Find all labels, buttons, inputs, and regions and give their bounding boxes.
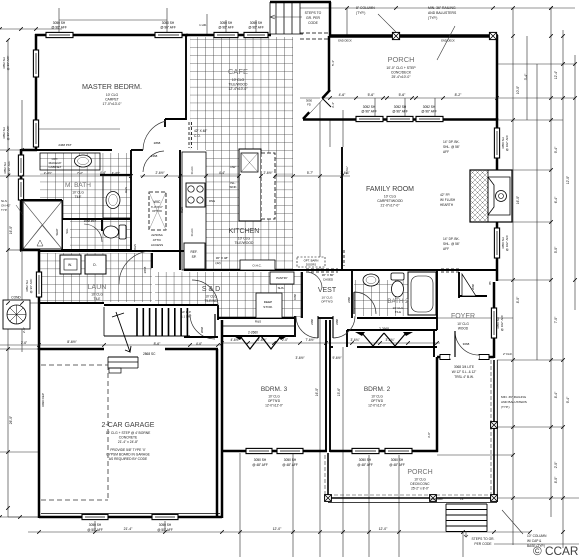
svg-text:10' CLG: 10' CLG xyxy=(205,295,217,299)
wall: laundry/hall left xyxy=(38,249,41,350)
svg-text:17'-0"x13'-0": 17'-0"x13'-0" xyxy=(103,102,123,106)
wall: stairs top / S&D bottom xyxy=(104,304,218,306)
svg-text:HEARTH: HEARTH xyxy=(440,203,454,207)
svg-text:SHL. @ 56": SHL. @ 56" xyxy=(443,242,460,246)
svg-text:& 1 5/8": & 1 5/8" xyxy=(181,315,192,319)
svg-text:10' CLG: 10' CLG xyxy=(384,195,397,199)
svg-text:OPT'N'D: OPT'N'D xyxy=(152,209,162,213)
svg-text:3050 SH: 3050 SH xyxy=(359,458,372,462)
svg-text:TRSL 4" B.W.: TRSL 4" B.W. xyxy=(454,375,474,379)
svg-text:B5: B5 xyxy=(488,281,492,285)
wall: master bath left xyxy=(20,149,23,251)
svg-text:GR. PER: GR. PER xyxy=(306,16,320,20)
svg-text:PANTRY: PANTRY xyxy=(276,276,288,280)
svg-text:D.: D. xyxy=(93,263,96,267)
WC toilet xyxy=(104,225,127,239)
svg-text:DEEP: DEEP xyxy=(264,300,272,304)
pantry + shelves S&D xyxy=(270,272,294,284)
ticks top left 29 xyxy=(0,27,38,31)
stair landing edge xyxy=(104,335,190,337)
window garage bottom 2 xyxy=(152,514,178,519)
svg-text:9'-6½": 9'-6½" xyxy=(332,356,341,360)
svg-text:8'-6½": 8'-6½" xyxy=(67,340,77,344)
wall: porch top (deck edge) xyxy=(330,34,498,37)
svg-text:FD: FD xyxy=(307,103,311,107)
svg-text:R&S: R&S xyxy=(124,187,128,193)
rear steps treads xyxy=(275,3,277,34)
wall: foyer west lower xyxy=(433,330,435,357)
svg-text:3'-6¾": 3'-6¾" xyxy=(350,338,359,342)
svg-text:4'-6½": 4'-6½" xyxy=(230,338,239,342)
wall: vest west xyxy=(301,272,303,318)
wall: vanity return xyxy=(100,174,131,176)
svg-text:AFF: AFF xyxy=(443,247,449,251)
svg-text:(TYP.): (TYP.) xyxy=(501,405,510,409)
shower with X xyxy=(23,201,62,249)
wall: master bedroom left xyxy=(35,34,38,151)
island sink xyxy=(241,153,258,172)
svg-text:3050 SH: 3050 SH xyxy=(254,458,267,462)
wall: bdrm3 alcove side xyxy=(294,316,296,337)
washer xyxy=(60,255,81,274)
ticks top 8 xyxy=(345,6,553,10)
svg-text:12'-0": 12'-0" xyxy=(273,527,282,531)
wall: master/cafe divider xyxy=(185,35,187,120)
wall: foyer front xyxy=(437,356,494,359)
svg-text:3050 SH: 3050 SH xyxy=(250,21,263,25)
svg-text:2468: 2468 xyxy=(310,319,314,325)
svg-text:@ 48" AFF: @ 48" AFF xyxy=(252,463,268,467)
svg-text:KITCHEN: KITCHEN xyxy=(229,228,260,235)
svg-text:W/ FLUSH: W/ FLUSH xyxy=(440,198,456,202)
svg-text:BDRM. 3: BDRM. 3 xyxy=(261,386,288,393)
svg-text:3052 SH: 3052 SH xyxy=(423,105,436,109)
svg-text:5'-7": 5'-7" xyxy=(307,171,313,175)
svg-text:2468: 2468 xyxy=(151,154,158,158)
svg-text:@ 48" AFF: @ 48" AFF xyxy=(357,463,373,467)
wall: garage top east xyxy=(165,348,218,351)
window 3050 SH bdrm2 2 xyxy=(385,448,412,453)
wall: porch/family window wall xyxy=(303,118,497,121)
window 3052 SH laundry xyxy=(36,272,41,297)
svg-text:DOORS: DOORS xyxy=(306,263,316,267)
svg-text:TILE: TILE xyxy=(75,195,82,199)
svg-text:MIN. 36" RAILING: MIN. 36" RAILING xyxy=(428,6,456,10)
svg-text:2868 SC: 2868 SC xyxy=(143,352,156,356)
tile floor: bath 2 xyxy=(354,280,410,316)
svg-text:2468 PKT: 2468 PKT xyxy=(58,143,72,147)
bath2 toilet xyxy=(391,273,404,297)
garage bottom inner line xyxy=(41,513,220,515)
wall: main cross wall y270 xyxy=(184,269,497,271)
svg-text:BDRM. 2: BDRM. 2 xyxy=(364,386,391,393)
svg-text:3'-5¾": 3'-5¾" xyxy=(385,338,394,342)
svg-text:@ 48" AFF: @ 48" AFF xyxy=(389,463,405,467)
svg-text:3050 SH: 3050 SH xyxy=(162,21,175,25)
tile floor: master bath xyxy=(40,153,131,219)
wall: rear steps right edge xyxy=(329,2,332,37)
dashed landing edge xyxy=(300,32,330,34)
svg-text:2-CAR GARAGE: 2-CAR GARAGE xyxy=(102,422,155,429)
svg-text:10' CLG: 10' CLG xyxy=(232,78,245,82)
window 3052 SH porch wall 2 xyxy=(387,116,413,121)
svg-text:12'-0"x12'-0": 12'-0"x12'-0" xyxy=(368,404,386,408)
svg-text:REF.: REF. xyxy=(191,250,198,254)
svg-text:O.H.C.: O.H.C. xyxy=(190,228,194,237)
wall: bdrm2 top west stub xyxy=(330,346,333,348)
fridge space xyxy=(184,243,205,269)
svg-text:4'-4": 4'-4" xyxy=(100,171,106,175)
svg-text:10' CLG: 10' CLG xyxy=(91,293,103,297)
svg-text:14" DP. BK.: 14" DP. BK. xyxy=(443,237,460,241)
window 3050 SH master top 2 xyxy=(155,32,182,37)
svg-text:OPT'N'D: OPT'N'D xyxy=(321,300,333,304)
svg-text:STEPS TO GR.: STEPS TO GR. xyxy=(472,537,495,541)
svg-text:SEAT: SEAT xyxy=(55,228,59,235)
fireplace xyxy=(470,170,512,222)
cased opening 42x48 C.O. xyxy=(188,122,190,148)
ticks right col 513 xyxy=(511,34,515,500)
svg-text:3050 SH: 3050 SH xyxy=(53,21,66,25)
ticks right col 575 xyxy=(573,62,577,282)
wall: stub between alcove doors xyxy=(318,317,333,319)
svg-text:5'-6": 5'-6" xyxy=(368,93,376,97)
svg-text:TILE/WD: TILE/WD xyxy=(205,299,219,303)
stair well left xyxy=(103,307,105,336)
svg-text:CARPET/WOOD: CARPET/WOOD xyxy=(377,199,403,203)
svg-text:@ 50" AFF: @ 50" AFF xyxy=(87,528,103,532)
bath dim chain y176 xyxy=(21,175,131,177)
svg-text:(TYP.): (TYP.) xyxy=(428,16,437,20)
svg-text:STOR.: STOR. xyxy=(263,305,273,309)
svg-text:W/ CAP &: W/ CAP & xyxy=(527,539,542,543)
wall: bdrm3/bdrm2 divider xyxy=(325,320,327,452)
wall: bath2 west xyxy=(351,270,353,318)
svg-text:2'-6½": 2'-6½" xyxy=(257,338,266,342)
svg-text:14" DP. BK.: 14" DP. BK. xyxy=(443,140,460,144)
garage interior dashed line xyxy=(107,365,109,500)
svg-text:2'-6½": 2'-6½" xyxy=(263,171,272,175)
window bath left 2 xyxy=(18,179,23,200)
wall: bdrm2 closet side xyxy=(346,330,348,347)
svg-text:3068 3/4 LITE: 3068 3/4 LITE xyxy=(454,365,474,369)
svg-text:F6.: F6. xyxy=(460,497,464,501)
column leader xyxy=(502,510,523,534)
svg-text:SHL: SHL xyxy=(65,228,69,234)
svg-text:5'-0": 5'-0" xyxy=(554,246,558,253)
svg-text:TILE/WOOD: TILE/WOOD xyxy=(228,83,248,87)
svg-text:3050 SH: 3050 SH xyxy=(391,458,404,462)
interior stairs treads xyxy=(136,308,138,336)
wall: laundry bottom xyxy=(39,302,104,304)
wall: foyer east xyxy=(493,282,496,358)
svg-text:@ 96" AFF: @ 96" AFF xyxy=(7,161,11,176)
bdrm2 door xyxy=(333,316,355,338)
wall: bdrm2 top east xyxy=(357,346,437,348)
cased opening 48x48 foyer xyxy=(441,268,461,270)
svg-text:10' CLG + STEP @ 4' BORNE: 10' CLG + STEP @ 4' BORNE xyxy=(106,431,151,435)
svg-text:ATTIC: ATTIC xyxy=(153,238,162,242)
svg-text:AP. H.P.: AP. H.P. xyxy=(181,310,192,314)
svg-text:36" X 80": 36" X 80" xyxy=(322,273,334,277)
tile floor: laundry xyxy=(40,253,152,302)
ticks porch dim xyxy=(328,96,499,100)
svg-text:W.: W. xyxy=(68,263,72,267)
bath2 door xyxy=(354,292,376,314)
window 3050 SH cafe 2 xyxy=(244,32,268,37)
porch outer edge bottom xyxy=(328,502,497,504)
door at stair head to S&D xyxy=(214,314,216,337)
front door 3068 in foyer front wall xyxy=(440,355,489,360)
ticks bdrm dim xyxy=(220,341,439,345)
wall: shower top xyxy=(21,199,62,201)
svg-text:FOYER: FOYER xyxy=(451,313,475,320)
svg-text:OPT'N'D: OPT'N'D xyxy=(268,399,281,403)
svg-text:@ 96" AFF: @ 96" AFF xyxy=(160,26,176,30)
wall: master bottom right stub xyxy=(131,149,143,151)
svg-text:@ 102" AFF: @ 102" AFF xyxy=(505,135,509,151)
wall: master bedroom top xyxy=(35,34,188,37)
svg-text:10' CLG: 10' CLG xyxy=(72,191,84,195)
svg-text:@ 96" AFF: @ 96" AFF xyxy=(421,110,437,114)
wall: WC left stub xyxy=(101,219,103,231)
wall: bdrm3/bdrm2 divider 2 xyxy=(329,320,331,452)
WIC optional closet dashed xyxy=(149,192,166,230)
svg-text:2'-0": 2'-0" xyxy=(554,461,558,468)
svg-text:42" X 48": 42" X 48" xyxy=(194,129,207,133)
svg-text:DECK/CONC: DECK/CONC xyxy=(410,482,430,486)
svg-text:7'-0": 7'-0" xyxy=(554,316,558,323)
svg-text:7'-6½": 7'-6½" xyxy=(305,338,314,342)
svg-text:12'-0": 12'-0" xyxy=(566,175,570,184)
wall: bdrm3 closet back (R&S) xyxy=(218,317,294,319)
window 3050 SH bdrm2 1 xyxy=(352,448,379,453)
kitchen counter strip xyxy=(182,152,206,270)
svg-text:2468: 2468 xyxy=(347,297,351,303)
deep storage xyxy=(256,293,282,318)
svg-text:42" FP.: 42" FP. xyxy=(440,193,450,197)
porch column xyxy=(430,495,437,502)
bdrm3 door xyxy=(296,316,318,338)
wall: master entry notch side xyxy=(164,119,166,127)
svg-text:2-2660: 2-2660 xyxy=(248,331,258,335)
svg-text:(42): (42) xyxy=(215,261,220,265)
window garage bottom 1 xyxy=(82,514,108,519)
svg-text:SP.: SP. xyxy=(192,255,197,259)
garage entry steps xyxy=(108,356,138,358)
svg-text:2468: 2468 xyxy=(335,319,339,325)
ticks right col 551 xyxy=(549,6,553,500)
svg-text:TILE: TILE xyxy=(94,297,101,301)
closet shelf line xyxy=(222,325,294,327)
wall: foyer west upper xyxy=(436,270,438,330)
svg-text:3052 SH: 3052 SH xyxy=(363,105,376,109)
dryer xyxy=(85,255,106,274)
svg-text:10'-0" CLG + STEP: 10'-0" CLG + STEP xyxy=(386,66,416,70)
svg-text:4'-4½": 4'-4½" xyxy=(112,171,120,175)
svg-text:END DECK: END DECK xyxy=(338,39,352,43)
svg-text:@ 96" AFF: @ 96" AFF xyxy=(361,110,377,114)
wall: bdrm2 bottom xyxy=(330,450,438,453)
svg-text:8'-6": 8'-6" xyxy=(154,342,162,346)
steps leader arrow xyxy=(464,531,468,537)
porch column xyxy=(325,495,332,502)
wall: shower right xyxy=(61,200,63,250)
kitchen ohc right xyxy=(240,260,275,270)
svg-text:8'-2": 8'-2" xyxy=(455,93,463,97)
svg-text:TYP.: TYP. xyxy=(1,208,7,212)
svg-text:5'-6¾": 5'-6¾" xyxy=(345,166,349,174)
svg-text:10' CLG: 10' CLG xyxy=(414,478,426,482)
svg-text:10' CLG: 10' CLG xyxy=(457,322,469,326)
svg-text:O.H.C.: O.H.C. xyxy=(190,166,194,175)
window 3050 SH family east 2 xyxy=(494,228,499,258)
wall: bdrm3 bottom xyxy=(221,450,327,453)
vanity sink 1 xyxy=(75,155,92,167)
ticks hall dim xyxy=(37,343,220,347)
wall: bdrm3/garage east xyxy=(221,320,224,518)
wall: garage bottom xyxy=(39,516,222,519)
porch outer edge right xyxy=(496,360,498,502)
wall: house east face at porch xyxy=(436,357,439,452)
window bath left 1 xyxy=(18,155,23,176)
svg-text:10' CLG: 10' CLG xyxy=(371,395,383,399)
svg-text:SHL. @ 56": SHL. @ 56" xyxy=(443,145,460,149)
svg-text:5'-4": 5'-4" xyxy=(331,60,335,66)
bath2 sink xyxy=(363,274,379,286)
svg-text:2868: 2868 xyxy=(143,266,147,273)
svg-text:TILE/WOOD: TILE/WOOD xyxy=(234,241,254,245)
wall: bdrm3 closet front xyxy=(222,335,294,337)
wall: master entry notch top xyxy=(165,118,186,120)
svg-text:4'-6": 4'-6" xyxy=(196,342,202,346)
ticks kitchen dim xyxy=(129,174,344,178)
ticks bottom 532 xyxy=(37,530,532,534)
svg-text:SINK: SINK xyxy=(229,185,236,189)
window 3052 SH porch wall 3 xyxy=(416,116,443,121)
ticks bottom 517 xyxy=(0,515,22,519)
svg-text:NLS: NLS xyxy=(1,199,7,203)
svg-text:5'-6": 5'-6" xyxy=(399,93,407,97)
svg-text:@ 102" AFF: @ 102" AFF xyxy=(500,315,504,331)
svg-text:LAUN: LAUN xyxy=(88,284,107,291)
svg-text:9'-4": 9'-4" xyxy=(554,146,558,153)
wall: bath step xyxy=(21,149,37,152)
porch steps bottom right xyxy=(446,504,487,532)
svg-text:10' CLG: 10' CLG xyxy=(238,237,251,241)
svg-text:3050 SH: 3050 SH xyxy=(159,523,172,527)
tile floor: S&D lower strip xyxy=(218,305,302,318)
svg-text:@ 96" AFF: @ 96" AFF xyxy=(248,26,264,30)
wall: family room west xyxy=(341,147,343,270)
window 3050 SH bdrm3 1 xyxy=(246,448,272,453)
window 3052 SH master left 2 xyxy=(33,120,38,147)
svg-text:RDK ABV.: RDK ABV. xyxy=(431,497,444,501)
svg-text:CAFE: CAFE xyxy=(228,67,248,76)
ticks right col 563 xyxy=(561,34,565,534)
svg-text:AND BALUSTERS: AND BALUSTERS xyxy=(501,400,527,404)
bdrm2 closet bifold doors 2-2668 xyxy=(362,333,406,346)
porch column xyxy=(491,495,498,502)
wall: laundry/S&D divider stub xyxy=(151,253,153,268)
svg-text:SHS.: SHS. xyxy=(278,286,285,290)
wall: stair head east xyxy=(217,305,219,320)
svg-text:VEST: VEST xyxy=(318,287,337,294)
vanity sink 2 xyxy=(106,192,120,209)
kitchen island xyxy=(239,149,261,221)
svg-text:BATH 2: BATH 2 xyxy=(387,298,409,305)
svg-text:OPT'N'D: OPT'N'D xyxy=(371,399,384,403)
tile floor: cafe xyxy=(190,37,293,150)
svg-text:CONCRETE: CONCRETE xyxy=(119,436,138,440)
svg-text:ON 42": ON 42" xyxy=(1,204,11,208)
svg-text:STEPS TO: STEPS TO xyxy=(305,11,322,15)
svg-text:22/30SA: 22/30SA xyxy=(151,233,163,237)
svg-text:CONC/DECK: CONC/DECK xyxy=(391,71,412,75)
stair direction arrow xyxy=(112,312,131,352)
svg-text:3'-4": 3'-4" xyxy=(331,102,335,108)
porch column xyxy=(491,422,498,429)
svg-text:AFF: AFF xyxy=(443,150,449,154)
svg-text:ACCESS: ACCESS xyxy=(151,243,163,247)
leader to rear steps xyxy=(270,15,302,19)
svg-text:3050 SH: 3050 SH xyxy=(284,458,297,462)
svg-text:10" COLUMN: 10" COLUMN xyxy=(527,534,547,538)
svg-text:12'-0": 12'-0" xyxy=(379,527,388,531)
svg-text:W/ 12" S.L. & 12": W/ 12" S.L. & 12" xyxy=(452,370,477,374)
svg-text:© CCAR: © CCAR xyxy=(533,544,578,557)
svg-text:16'-0": 16'-0" xyxy=(516,195,520,204)
opt barn doors label box xyxy=(297,257,325,267)
svg-text:FAMILY ROOM: FAMILY ROOM xyxy=(366,186,414,193)
wall: cafe top xyxy=(186,34,271,37)
svg-text:COND: COND xyxy=(11,296,21,300)
svg-text:8'-4": 8'-4" xyxy=(554,391,558,398)
svg-text:36" X 48": 36" X 48" xyxy=(216,256,228,260)
svg-text:@ 96" AFF: @ 96" AFF xyxy=(29,279,33,294)
wall: stair head south stub xyxy=(184,336,218,338)
svg-text:16'-0": 16'-0" xyxy=(9,225,13,234)
svg-text:8'-0": 8'-0" xyxy=(554,476,558,483)
S&D door from stairs hall xyxy=(192,280,218,306)
svg-text:2" FLR.: 2" FLR. xyxy=(503,352,513,356)
wall: cafe diagonal corner xyxy=(303,90,330,119)
svg-text:2'-0": 2'-0" xyxy=(282,338,288,342)
svg-text:CABINET: CABINET xyxy=(48,165,61,169)
window 3050 SH bdrm3 2 xyxy=(277,448,303,453)
condenser unit xyxy=(3,300,30,329)
foyer closet door wedge xyxy=(462,274,476,296)
svg-text:WOOD: WOOD xyxy=(458,327,469,331)
svg-text:1668: 1668 xyxy=(293,294,297,300)
svg-text:6'-0"x5'-0": 6'-0"x5'-0" xyxy=(151,205,163,209)
svg-text:3050 SH: 3050 SH xyxy=(89,523,102,527)
wall: foyer closet bottom xyxy=(459,295,487,297)
svg-text:2'-0": 2'-0" xyxy=(22,327,26,333)
svg-text:1 HD.: 1 HD. xyxy=(199,23,207,27)
wall: bath bottom-left xyxy=(20,249,40,252)
svg-text:WIC: WIC xyxy=(154,200,161,204)
svg-text:2868: 2868 xyxy=(200,326,204,333)
wall: WC top xyxy=(62,218,131,220)
svg-text:10' CLG: 10' CLG xyxy=(106,93,119,97)
svg-text:@ 96" AFF: @ 96" AFF xyxy=(392,110,408,114)
svg-text:AS REQUIRED BY CODE: AS REQUIRED BY CODE xyxy=(109,457,148,461)
wall: laundry top xyxy=(39,250,184,252)
master door 2468 swing xyxy=(143,121,166,150)
svg-text:3'-6½": 3'-6½" xyxy=(295,356,304,360)
wall: garage left xyxy=(38,348,41,518)
